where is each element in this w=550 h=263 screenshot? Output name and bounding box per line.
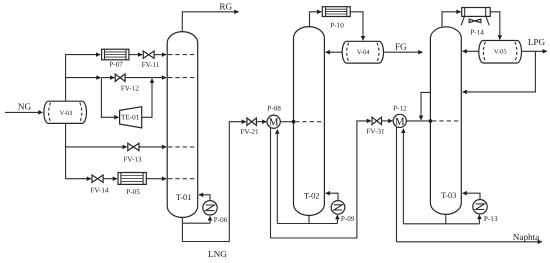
wire LNG bottoms line <box>182 122 246 242</box>
reboiler P-13 <box>473 200 498 224</box>
tray dashed line T-03 <box>432 120 461 122</box>
svg-text:FV-14: FV-14 <box>90 186 109 194</box>
vessel V-04 <box>342 41 383 63</box>
wire V-03 top riser <box>66 55 101 102</box>
wire P-09 return <box>326 193 338 200</box>
node junction dot T-02 feed <box>292 120 295 123</box>
wire FV-13 branch <box>66 146 127 148</box>
svg-text:TE-01: TE-01 <box>121 113 140 121</box>
wire P-06 suction <box>182 216 210 223</box>
wire NG inlet <box>5 111 43 113</box>
wire P-10 to V-04 <box>350 12 363 41</box>
heat exchanger P-07 <box>102 49 129 68</box>
wire V-04 reflux to T-02 <box>326 51 343 53</box>
wire P-08 suction drop <box>276 130 278 224</box>
wire T-03 overhead to P-14 <box>442 12 461 28</box>
tray dashed lines T-01 <box>168 55 197 179</box>
wire junction to FV-12 <box>101 77 114 79</box>
svg-text:Naphta: Naphta <box>513 232 540 242</box>
valve FV-31 <box>366 117 385 135</box>
wire FV-13 to T-01 <box>139 146 166 148</box>
svg-text:P-14: P-14 <box>470 28 484 36</box>
wire T-02 bottom nozzle <box>308 215 310 224</box>
svg-text:FV-13: FV-13 <box>123 155 142 163</box>
wire P-13 return <box>463 193 481 199</box>
wire Naphta product <box>397 241 542 243</box>
vessel V-03 <box>44 101 87 123</box>
column T-03 <box>430 27 461 215</box>
svg-text:M: M <box>395 116 405 128</box>
turbine TE-01 <box>120 107 142 128</box>
valve FV-12 <box>115 74 139 92</box>
svg-text:P-06: P-06 <box>214 216 228 224</box>
svg-text:T-03: T-03 <box>441 191 457 200</box>
wire T-02 suction header <box>277 223 337 225</box>
wire TE-01 suction <box>101 78 118 118</box>
svg-text:FV-21: FV-21 <box>240 128 259 136</box>
valve FV-13 <box>123 143 142 163</box>
wire P-12 suction drop <box>402 129 404 224</box>
node junction dot T-03 feed <box>429 119 432 122</box>
svg-text:LPG: LPG <box>528 37 546 47</box>
wire FV-12 branch <box>66 77 101 79</box>
svg-text:T-02: T-02 <box>304 191 320 200</box>
svg-text:P-08: P-08 <box>267 104 281 112</box>
wire P-12 discharge drop <box>396 127 398 242</box>
wire FV-11 to T-01 <box>154 54 166 56</box>
wire V-03 bottom drop <box>66 123 91 178</box>
wire V-05 reflux to T-03 <box>463 50 479 52</box>
valve FV-11 <box>142 51 160 69</box>
wire T-02 bottoms to FV-31 <box>271 121 372 238</box>
svg-text:P-07: P-07 <box>109 61 123 69</box>
column T-01 <box>167 32 198 218</box>
wire FV-31 to P-12 <box>382 120 393 122</box>
reboiler P-06 <box>203 201 228 224</box>
wire P-07 to FV-11 <box>129 54 142 56</box>
svg-text:P-12: P-12 <box>393 105 407 113</box>
heat exchanger P-05 <box>118 173 146 197</box>
svg-text:LNG: LNG <box>208 249 227 259</box>
svg-text:FV-11: FV-11 <box>142 61 160 69</box>
wire P-06 return <box>199 195 210 201</box>
svg-text:P-09: P-09 <box>341 215 355 223</box>
wire RG overhead <box>182 12 238 32</box>
svg-text:P-13: P-13 <box>484 215 498 223</box>
wire P-14 to V-05 <box>490 12 500 40</box>
wire T-02 overhead to P-10 <box>310 12 322 27</box>
svg-text:FG: FG <box>395 42 407 52</box>
svg-text:T-01: T-01 <box>176 193 192 202</box>
air cooler P-14 <box>461 8 490 37</box>
wire TE-01 discharge <box>142 79 152 118</box>
pump P-08 <box>267 104 281 128</box>
wire P-12 to T-03 <box>406 120 430 122</box>
wire P-09 suction riser <box>336 215 338 224</box>
wire P-08 discharge drop <box>270 128 272 238</box>
valve FV-14 <box>90 175 109 194</box>
svg-text:NG: NG <box>18 101 32 111</box>
svg-text:P-05: P-05 <box>126 188 140 196</box>
wire P-05 to T-01 <box>146 178 166 180</box>
wire P-08 to T-02 <box>280 121 293 123</box>
svg-text:V-03: V-03 <box>60 110 73 117</box>
wire FV-14 to P-05 <box>103 178 117 180</box>
wire FV-21 to P-08 <box>256 121 266 123</box>
vessel V-05 <box>479 41 522 64</box>
wire LPG product <box>522 50 547 52</box>
reboiler P-09 <box>331 201 355 223</box>
svg-text:M: M <box>269 117 279 129</box>
wire P-13 suction riser <box>478 215 480 224</box>
svg-text:RG: RG <box>219 1 232 11</box>
svg-text:FV-12: FV-12 <box>121 84 140 92</box>
svg-text:P-10: P-10 <box>330 21 344 29</box>
svg-text:FV-31: FV-31 <box>366 127 385 135</box>
tray dashed line T-02 <box>295 121 324 123</box>
wire T-03 bottom nozzle <box>445 214 447 224</box>
pump P-12 <box>393 105 407 128</box>
valve FV-21 <box>240 118 259 136</box>
wire T-03 suction header <box>403 223 479 225</box>
wire T-03 side stub <box>421 92 430 120</box>
wire FV-12 to T-01 <box>125 77 166 79</box>
wire T-01 bottom nozzle <box>181 217 183 223</box>
svg-text:V-05: V-05 <box>494 49 507 56</box>
wire FG product <box>384 51 423 53</box>
column T-02 <box>294 27 325 216</box>
svg-text:V-04: V-04 <box>357 49 371 56</box>
wire LPG branch to T-03 <box>463 51 536 92</box>
heat exchanger P-10 <box>322 7 350 30</box>
